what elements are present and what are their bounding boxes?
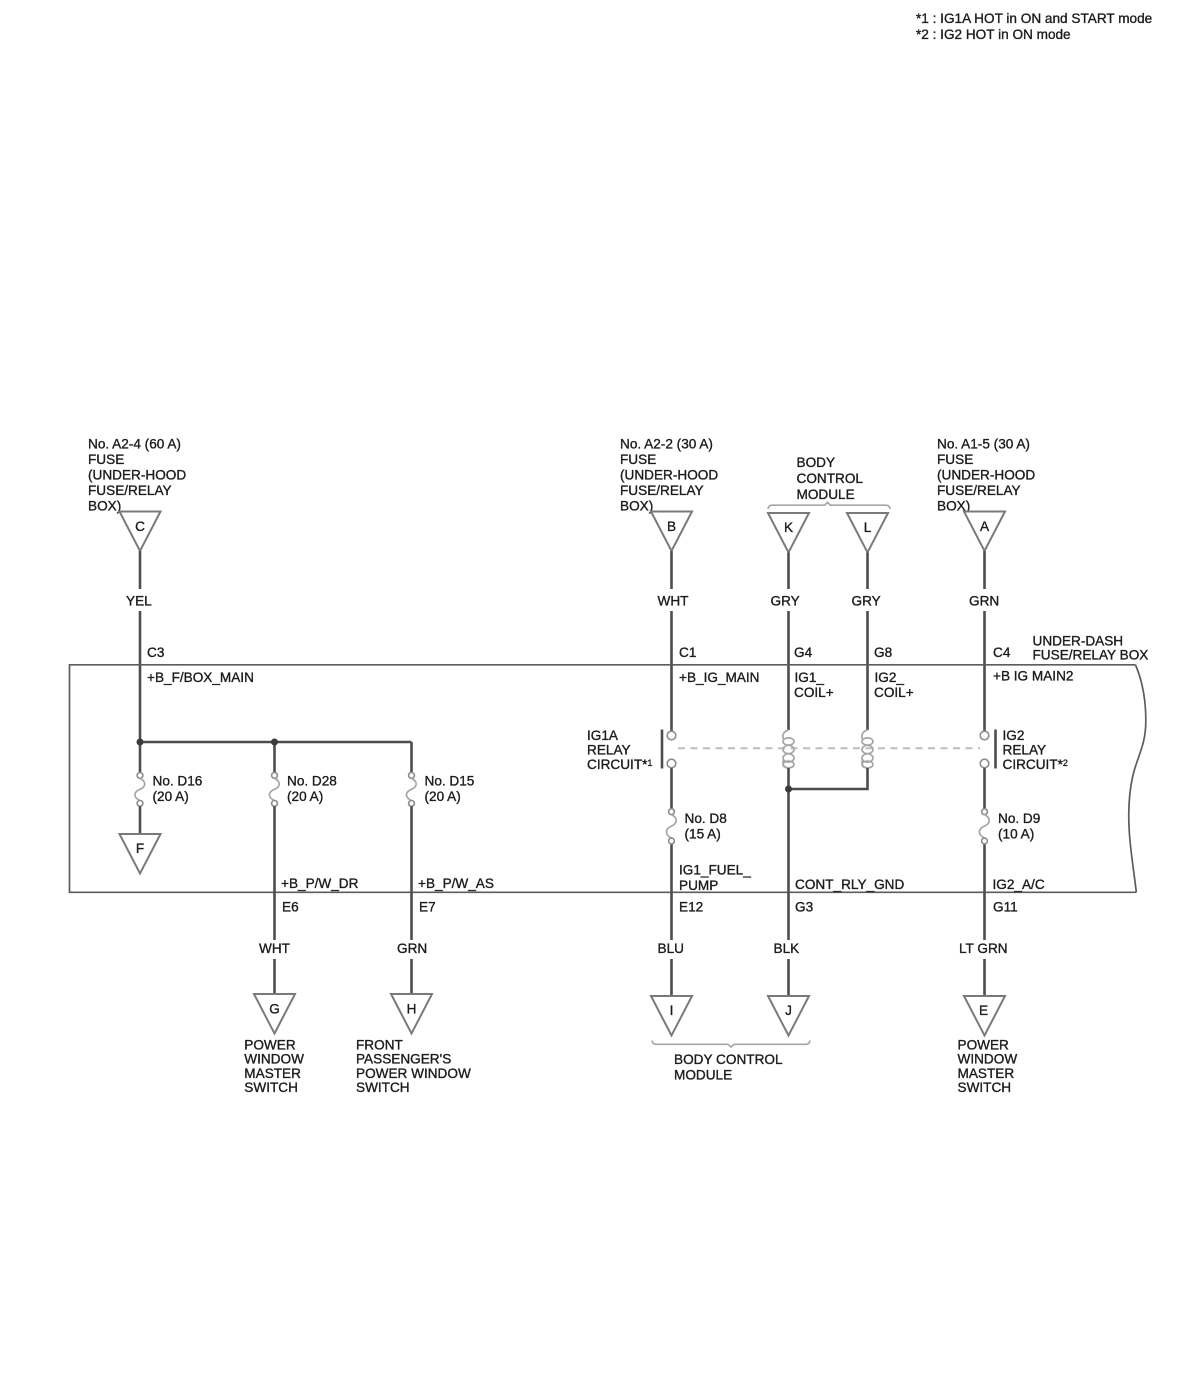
svg-text:GRY: GRY <box>852 594 881 609</box>
svg-text:WINDOW: WINDOW <box>244 1052 304 1067</box>
svg-text:SWITCH: SWITCH <box>958 1080 1012 1095</box>
svg-text:*1 : IG1A HOT in ON and START: *1 : IG1A HOT in ON and START mode <box>916 11 1152 26</box>
svg-text:UNDER-DASH: UNDER-DASH <box>1033 634 1124 649</box>
svg-text:BOX): BOX) <box>88 499 121 514</box>
svg-text:CIRCUIT*2: CIRCUIT*2 <box>1003 757 1068 772</box>
svg-text:GRY: GRY <box>771 594 800 609</box>
svg-text:SWITCH: SWITCH <box>356 1080 410 1095</box>
svg-text:IG1_FUEL_: IG1_FUEL_ <box>679 863 751 878</box>
svg-text:FRONT: FRONT <box>356 1037 403 1052</box>
svg-text:MASTER: MASTER <box>244 1066 301 1081</box>
svg-text:E6: E6 <box>282 900 299 915</box>
svg-text:MODULE: MODULE <box>674 1067 732 1082</box>
svg-text:IG2_A/C: IG2_A/C <box>993 877 1045 892</box>
svg-text:PUMP: PUMP <box>679 878 718 893</box>
svg-text:BODY: BODY <box>797 455 836 470</box>
svg-text:G3: G3 <box>795 900 813 915</box>
svg-text:*2 : IG2 HOT in ON mode: *2 : IG2 HOT in ON mode <box>916 27 1071 42</box>
svg-text:RELAY: RELAY <box>1003 743 1047 758</box>
svg-text:L: L <box>864 520 872 535</box>
svg-text:LT GRN: LT GRN <box>959 941 1008 956</box>
svg-text:FUSE: FUSE <box>88 452 124 467</box>
svg-text:C1: C1 <box>679 645 696 660</box>
svg-text:(15 A): (15 A) <box>685 826 721 841</box>
svg-text:E7: E7 <box>419 900 436 915</box>
svg-text:MODULE: MODULE <box>797 487 855 502</box>
svg-text:BODY CONTROL: BODY CONTROL <box>674 1052 783 1067</box>
svg-text:COIL+: COIL+ <box>874 685 914 700</box>
svg-text:G4: G4 <box>794 645 813 660</box>
svg-text:BLK: BLK <box>774 941 800 956</box>
svg-text:K: K <box>784 520 793 535</box>
svg-text:PASSENGER'S: PASSENGER'S <box>356 1052 451 1067</box>
svg-text:G: G <box>269 1002 280 1017</box>
svg-text:FUSE/RELAY BOX: FUSE/RELAY BOX <box>1033 648 1149 663</box>
svg-text:POWER WINDOW: POWER WINDOW <box>356 1066 471 1081</box>
svg-text:GRN: GRN <box>397 941 427 956</box>
svg-text:RELAY: RELAY <box>587 743 631 758</box>
svg-text:No. D16: No. D16 <box>153 774 203 789</box>
svg-text:F: F <box>136 841 144 856</box>
svg-text:(UNDER-HOOD: (UNDER-HOOD <box>88 468 186 483</box>
svg-text:(20 A): (20 A) <box>153 789 189 804</box>
svg-text:+B_F/BOX_MAIN: +B_F/BOX_MAIN <box>147 670 254 685</box>
svg-text:No. A2-4 (60 A): No. A2-4 (60 A) <box>88 437 181 452</box>
svg-text:IG2_: IG2_ <box>875 670 905 685</box>
svg-text:J: J <box>785 1003 792 1018</box>
svg-text:POWER: POWER <box>244 1037 296 1052</box>
svg-text:B: B <box>667 519 676 534</box>
svg-text:BLU: BLU <box>658 941 684 956</box>
svg-text:(10 A): (10 A) <box>998 826 1034 841</box>
svg-text:G8: G8 <box>874 645 892 660</box>
svg-text:FUSE/RELAY: FUSE/RELAY <box>88 483 172 498</box>
svg-text:+B_P/W_DR: +B_P/W_DR <box>281 876 359 891</box>
svg-text:COIL+: COIL+ <box>794 685 834 700</box>
svg-text:BOX): BOX) <box>620 499 653 514</box>
svg-text:IG2: IG2 <box>1003 728 1025 743</box>
svg-text:(UNDER-HOOD: (UNDER-HOOD <box>620 468 718 483</box>
svg-text:SWITCH: SWITCH <box>244 1080 298 1095</box>
svg-text:(20 A): (20 A) <box>425 789 461 804</box>
svg-text:G11: G11 <box>993 900 1018 915</box>
svg-text:C3: C3 <box>147 645 164 660</box>
svg-text:No. D9: No. D9 <box>998 811 1040 826</box>
svg-text:MASTER: MASTER <box>958 1066 1015 1081</box>
svg-text:H: H <box>407 1002 417 1017</box>
svg-text:GRN: GRN <box>969 594 999 609</box>
svg-text:C: C <box>135 519 145 534</box>
svg-text:CONTROL: CONTROL <box>797 471 864 486</box>
svg-text:(UNDER-HOOD: (UNDER-HOOD <box>937 468 1035 483</box>
svg-text:(20 A): (20 A) <box>287 789 323 804</box>
svg-text:No. A2-2 (30 A): No. A2-2 (30 A) <box>620 437 713 452</box>
svg-text:E: E <box>979 1003 988 1018</box>
svg-text:YEL: YEL <box>126 594 152 609</box>
svg-text:+B_IG_MAIN: +B_IG_MAIN <box>679 670 759 685</box>
svg-text:CONT_RLY_GND: CONT_RLY_GND <box>795 877 904 892</box>
svg-text:FUSE: FUSE <box>937 452 973 467</box>
svg-text:E12: E12 <box>679 900 703 915</box>
svg-text:FUSE/RELAY: FUSE/RELAY <box>620 483 704 498</box>
svg-text:+B_P/W_AS: +B_P/W_AS <box>418 876 494 891</box>
svg-text:IG1_: IG1_ <box>795 670 825 685</box>
svg-text:+B IG MAIN2: +B IG MAIN2 <box>993 669 1073 684</box>
svg-text:A: A <box>980 519 990 534</box>
svg-text:IG1A: IG1A <box>587 728 619 743</box>
svg-text:WINDOW: WINDOW <box>958 1052 1018 1067</box>
svg-text:No. D8: No. D8 <box>685 811 727 826</box>
svg-text:CIRCUIT*1: CIRCUIT*1 <box>587 757 652 772</box>
svg-text:WHT: WHT <box>259 941 290 956</box>
svg-text:FUSE: FUSE <box>620 452 656 467</box>
svg-text:No. D15: No. D15 <box>425 774 475 789</box>
svg-text:No. A1-5 (30 A): No. A1-5 (30 A) <box>937 437 1030 452</box>
svg-text:WHT: WHT <box>658 594 689 609</box>
svg-text:No. D28: No. D28 <box>287 774 337 789</box>
svg-text:C4: C4 <box>993 645 1011 660</box>
svg-text:FUSE/RELAY: FUSE/RELAY <box>937 483 1021 498</box>
svg-text:I: I <box>670 1003 674 1018</box>
svg-text:POWER: POWER <box>958 1037 1010 1052</box>
